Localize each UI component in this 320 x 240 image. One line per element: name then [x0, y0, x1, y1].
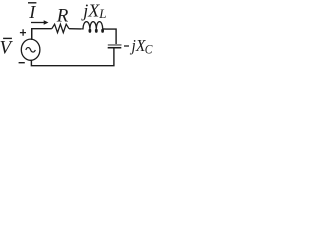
capacitor top plate: [108, 44, 122, 46]
svg-text:I: I: [28, 2, 36, 22]
label -jXC: [124, 45, 129, 47]
inductor loop 1: [89, 29, 92, 33]
wire top-left corner segment: [32, 29, 52, 40]
resistor R: [52, 24, 69, 32]
inductor loop 3: [101, 29, 104, 33]
inductor loop 2: [95, 29, 98, 33]
overbar of V: [3, 37, 12, 39]
AC source sine wave: [26, 48, 35, 52]
overbar of I: [28, 2, 36, 4]
polarity plus sign: [20, 29, 26, 36]
AC source V circle: [21, 39, 40, 60]
current arrow: [31, 22, 44, 24]
wire capacitor down to bottom: [31, 49, 114, 66]
wire inductor to capacitor corner: [103, 29, 116, 44]
polarity minus sign: [19, 62, 25, 64]
inductor jXL arches: [81, 22, 102, 29]
svg-text:R: R: [56, 6, 69, 27]
wire source top stub: [31, 29, 33, 40]
wire between resistor and inductor: [69, 28, 81, 30]
capacitor bottom plate: [108, 47, 122, 49]
